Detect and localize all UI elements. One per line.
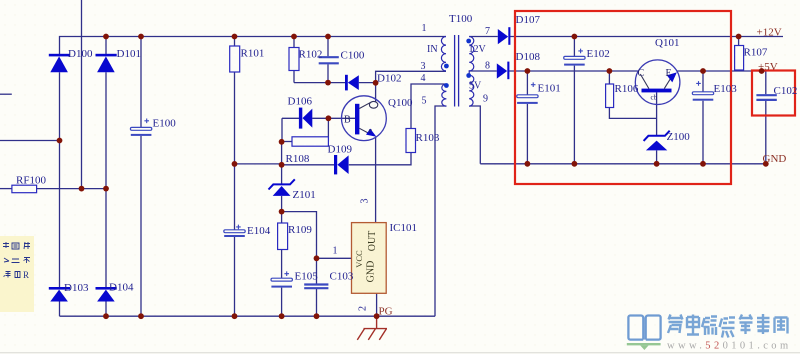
note text line3	[4, 272, 21, 278]
svg-text:D108: D108	[516, 51, 541, 63]
wire top rail	[60, 37, 447, 55]
wire E101 leads	[526, 71, 528, 164]
svg-text:D106: D106	[288, 96, 313, 108]
svg-text:+12V: +12V	[757, 27, 782, 39]
resistor R101	[230, 46, 240, 72]
diode D100	[49, 54, 70, 73]
wire pin7 to D107	[469, 36, 498, 38]
resistor R109	[278, 223, 288, 250]
svg-text:E102: E102	[587, 48, 610, 60]
capacitor E102 electrolytic	[564, 49, 585, 66]
wire R101 to E104	[234, 72, 236, 230]
wire C100 leads	[327, 37, 329, 83]
svg-text:5V: 5V	[469, 81, 482, 92]
wire E104 bottom lead	[234, 237, 236, 316]
wire ground rail	[480, 163, 766, 165]
wire E103 leads	[702, 71, 704, 164]
wire base net	[312, 117, 355, 119]
wire pin3 link	[376, 71, 446, 82]
resistor R102	[289, 48, 299, 71]
resistor R107	[735, 46, 744, 71]
svg-text:RF100: RF100	[16, 175, 46, 187]
wire D106 left link	[282, 118, 299, 141]
svg-text:e: e	[369, 126, 373, 135]
wire D104 bottom lead	[105, 302, 107, 317]
svg-text:R107: R107	[744, 47, 768, 59]
svg-text:1: 1	[333, 246, 338, 257]
wire AC input 1 horizontal	[0, 140, 60, 142]
svg-text:R103: R103	[416, 132, 440, 144]
wire D102 net	[294, 82, 376, 84]
diode D102	[345, 75, 359, 91]
resistor R106	[606, 84, 614, 108]
svg-text:3: 3	[360, 199, 371, 204]
wire RF100 left lead	[0, 188, 12, 190]
ground symbol	[357, 316, 387, 340]
wire pin4 to R103	[411, 84, 446, 129]
wire pin5 riser from bottom rail	[435, 106, 446, 316]
svg-text:Z101: Z101	[293, 189, 316, 201]
svg-text:D107: D107	[516, 14, 541, 26]
note text line2	[4, 258, 30, 264]
wire AC input 2 vertical from top edge	[81, 0, 83, 189]
wire R101 top lead	[234, 37, 236, 47]
wire AC line stub left edge	[0, 93, 12, 95]
wire RF100 right lead	[37, 188, 106, 190]
wire +12V rail	[510, 36, 783, 38]
wire C102 leads	[765, 71, 767, 164]
IC101 regulator	[352, 223, 387, 294]
wire Z101 anode to pin1 node	[282, 212, 317, 317]
capacitor E104 electrolytic	[224, 225, 245, 237]
svg-text:D101: D101	[117, 48, 141, 60]
svg-text:C102: C102	[774, 85, 798, 97]
svg-text:D103: D103	[64, 282, 89, 294]
wire R102 leads	[293, 37, 295, 83]
wire D101 top lead	[105, 37, 107, 55]
svg-text:R106: R106	[615, 83, 639, 95]
svg-text:3: 3	[421, 61, 426, 72]
svg-text:B: B	[344, 115, 351, 126]
svg-text:E103: E103	[714, 83, 738, 95]
svg-text:9: 9	[483, 94, 488, 105]
zener Z100	[644, 131, 670, 151]
wire Q100 collector	[375, 83, 377, 102]
svg-text:D102: D102	[377, 73, 401, 85]
capacitor C100	[319, 57, 339, 63]
capacitor C102	[756, 95, 776, 100]
capacitor C103	[304, 285, 328, 289]
svg-text:www.520101.com: www.520101.com	[667, 341, 792, 352]
diode D101	[96, 54, 117, 73]
transistor Q100	[342, 96, 387, 141]
svg-text:Z100: Z100	[667, 131, 691, 143]
svg-text:T100: T100	[449, 13, 473, 25]
transistor Q101	[635, 60, 680, 105]
wire IC pin2	[376, 293, 378, 316]
svg-text:IC101: IC101	[390, 222, 418, 234]
watermark book icon	[628, 316, 660, 340]
wire IC pin1	[317, 257, 352, 259]
svg-text:C100: C100	[341, 50, 365, 62]
wire R108 left lead	[282, 141, 292, 143]
svg-text:4: 4	[421, 73, 426, 84]
svg-text:7: 7	[485, 26, 490, 37]
capacitor E101 electrolytic	[517, 82, 538, 104]
svg-text:VCC: VCC	[354, 250, 364, 268]
capacitor E105 electrolytic	[271, 271, 292, 287]
big red box	[515, 11, 731, 184]
svg-text:IN: IN	[427, 44, 438, 55]
svg-text:C103: C103	[330, 271, 354, 283]
wire R107 leads	[738, 37, 740, 72]
resistor R103	[406, 129, 416, 153]
svg-text:R108: R108	[286, 153, 310, 165]
wire D101 D104 leg	[105, 72, 107, 287]
bottom edge line	[0, 352, 800, 354]
zener Z101	[269, 179, 295, 196]
svg-text:R: R	[23, 270, 29, 280]
wire 5V raw rail to Q101 collector	[509, 70, 638, 72]
wire E102 leads	[573, 37, 575, 164]
svg-text:R101: R101	[241, 48, 265, 60]
wire R106 leads	[609, 71, 656, 118]
svg-text:GND: GND	[763, 153, 787, 165]
svg-text:OUT: OUT	[367, 231, 378, 252]
svg-text:R102: R102	[299, 49, 323, 61]
capacitor E100 electrolytic	[130, 119, 151, 136]
svg-text:GND: GND	[366, 261, 377, 283]
capacitor E103 electrolytic	[692, 81, 713, 101]
resistor RF100	[12, 185, 37, 193]
wire E100 leads	[140, 37, 142, 317]
wire pin8 to D108	[469, 70, 497, 72]
svg-text:+5V: +5V	[758, 61, 778, 73]
svg-text:R109: R109	[288, 224, 312, 236]
wire Q101 emitter +5V rail	[677, 70, 766, 72]
svg-text:D100: D100	[68, 48, 93, 60]
svg-text:E: E	[666, 68, 672, 79]
diode D104	[96, 287, 117, 302]
watermark book base	[627, 343, 661, 350]
note box yellow	[0, 236, 34, 312]
svg-text:E105: E105	[295, 271, 319, 283]
svg-text:PG: PG	[379, 306, 393, 318]
diode D108	[497, 62, 510, 80]
wire D100 D103 leg	[59, 72, 61, 287]
svg-text:2: 2	[358, 306, 369, 311]
diode D107	[498, 27, 511, 45]
svg-text:5: 5	[422, 96, 427, 107]
svg-text:8: 8	[485, 61, 490, 72]
svg-text:E104: E104	[247, 225, 271, 237]
svg-text:E100: E100	[153, 118, 177, 130]
small red box C102	[752, 71, 795, 116]
svg-text:E101: E101	[538, 83, 561, 95]
svg-text:C: C	[638, 68, 645, 79]
svg-text:12V: 12V	[469, 44, 487, 55]
svg-text:D104: D104	[109, 282, 134, 294]
wire pin9 to ground rail	[469, 106, 480, 164]
wire startup node branch	[235, 163, 282, 165]
wire D109 cathode to node	[282, 164, 334, 166]
wire D103 bottom lead	[59, 302, 61, 317]
wire Q100 emitter to IC pin3	[375, 137, 377, 223]
svg-text:D109: D109	[328, 144, 353, 156]
resistor R108	[292, 137, 328, 146]
svg-text:Q100: Q100	[388, 97, 413, 109]
diode D109	[334, 155, 349, 174]
diode D103	[49, 287, 70, 302]
wire R103 bottom to D109	[349, 153, 411, 165]
wire Z101 branch vertical	[281, 142, 283, 317]
svg-text:1: 1	[422, 23, 427, 34]
wire Q101 base to Z100	[656, 92, 658, 163]
svg-text:cb: cb	[651, 94, 658, 102]
note text line1	[3, 242, 30, 249]
watermark chinese text	[668, 314, 788, 338]
svg-text:Q101: Q101	[655, 37, 679, 49]
wire R108 right stub	[327, 118, 329, 141]
wire bottom rail	[60, 315, 436, 317]
diode D106	[299, 108, 312, 129]
transformer T100	[441, 35, 473, 107]
